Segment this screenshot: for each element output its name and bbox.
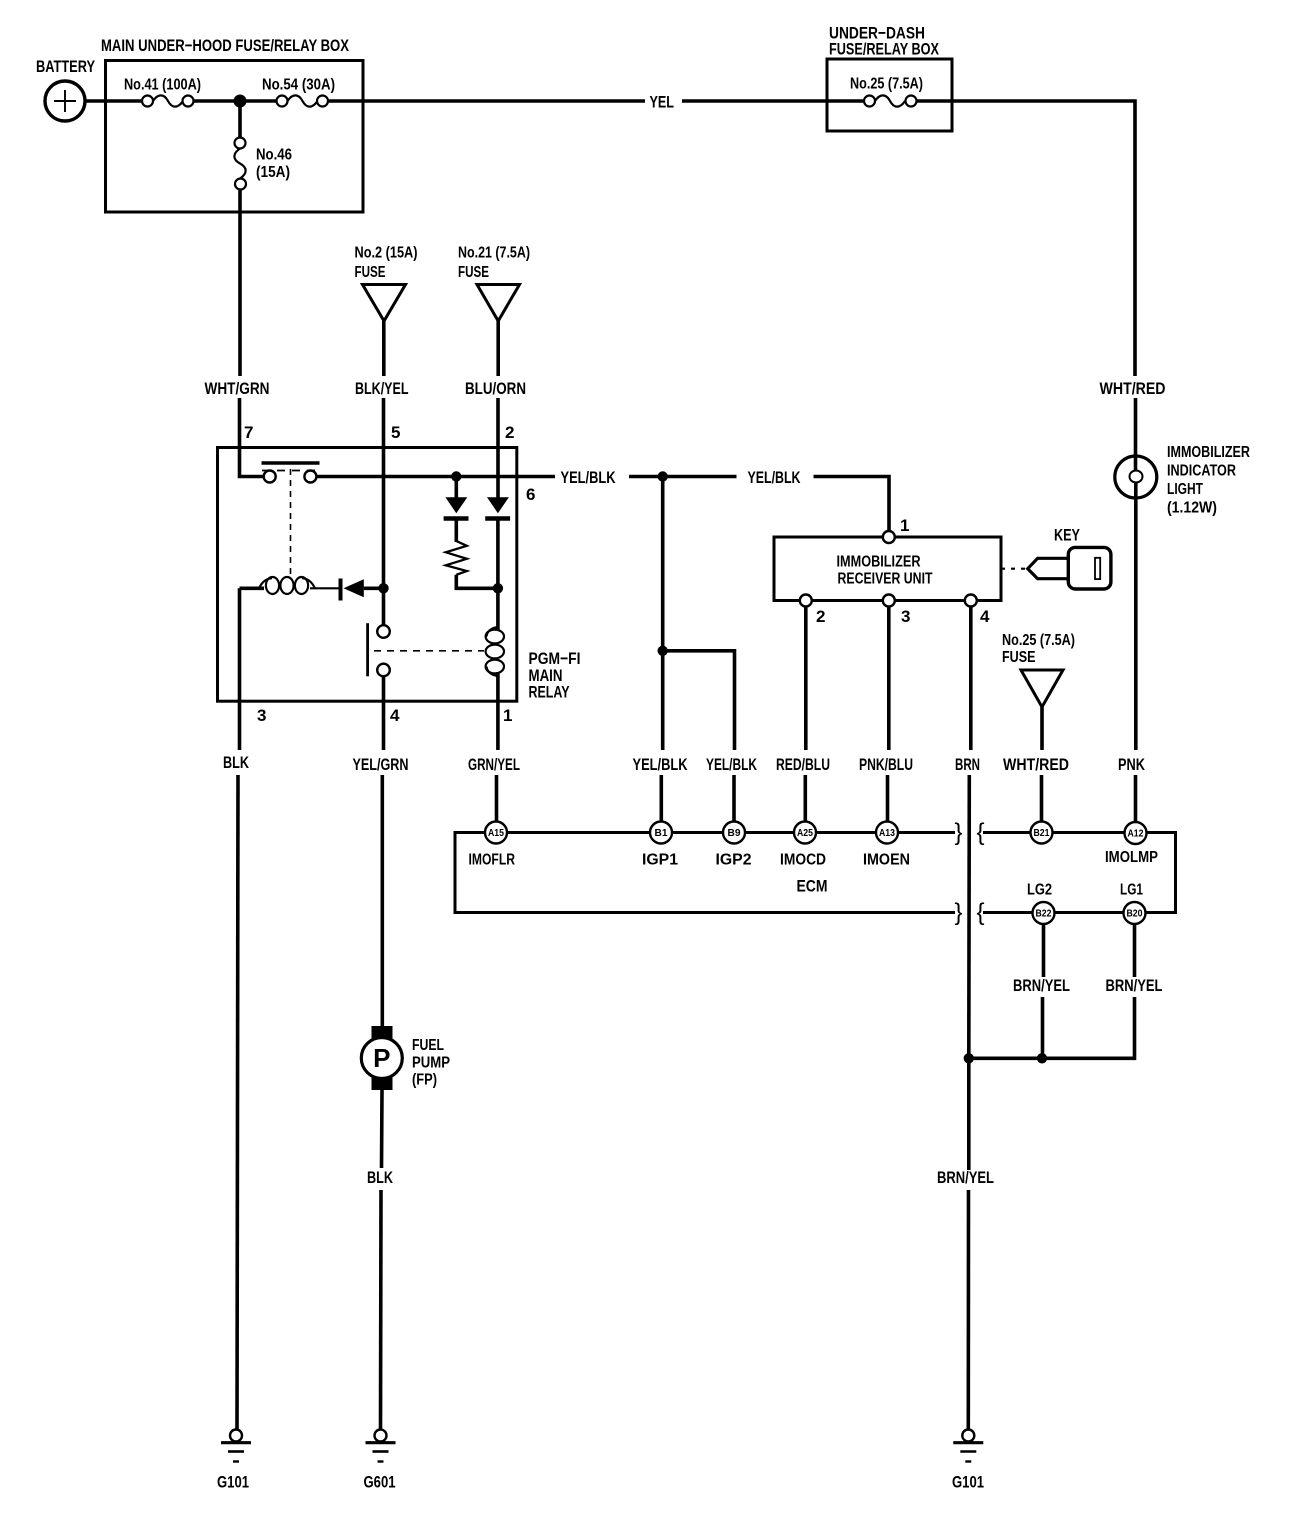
fuse No.25 (7.5A) under-dash [850,76,923,107]
svg-text:BLU/ORN: BLU/ORN [465,379,526,398]
svg-text:PNK/BLU: PNK/BLU [859,755,913,774]
svg-text:No.25 (7.5A): No.25 (7.5A) [1002,632,1075,649]
svg-text:4: 4 [390,706,400,725]
svg-text:{: { [976,819,984,846]
wire pin 4 YEL/GRN [382,676,386,750]
wire receiver pin 4 BRN [969,607,973,751]
svg-text:IMMOBILIZER: IMMOBILIZER [1167,444,1250,461]
svg-text:IGP1: IGP1 [642,852,678,869]
junction node [658,471,668,481]
wire to receiver pin 1 [814,477,890,532]
wire YEL/BLK inside relay [316,475,517,479]
svg-text:1: 1 [900,516,909,535]
svg-text:WHT/GRN: WHT/GRN [205,379,270,398]
wire PNK [1134,498,1138,750]
svg-text:RECEIVER UNIT: RECEIVER UNIT [838,571,933,588]
svg-text:G601: G601 [364,1473,396,1492]
wire receiver pin 3 PNK/BLU [887,607,891,751]
connector B21 [1031,822,1053,844]
svg-text:No.41 (100A): No.41 (100A) [124,77,201,94]
receiver pin 3 [883,595,895,607]
svg-text:LG2: LG2 [1027,882,1052,899]
svg-text:FUSE/RELAY BOX: FUSE/RELAY BOX [829,40,939,59]
immobilizer indicator light [1115,444,1251,517]
junction [964,1053,974,1063]
svg-text:B1: B1 [655,828,668,839]
ECM box right segment [983,833,1176,913]
ground G601 [364,1430,396,1492]
diode D2 [485,497,510,627]
wire down to indicator light [1134,398,1138,470]
wire B20 BRN/YEL [1133,924,1137,977]
svg-text:A13: A13 [879,828,895,839]
junction [451,471,461,481]
wire pin 3 BLK [238,588,242,750]
svg-text:No.21 (7.5A): No.21 (7.5A) [458,245,530,262]
svg-text:BLK: BLK [223,753,250,772]
svg-text:3: 3 [257,706,266,725]
svg-text:RELAY: RELAY [529,683,570,702]
BLU/ORN vertical pin 2 to diode [496,398,500,498]
ground G101 left [217,1430,251,1492]
fuse No.54 (30A) [262,77,335,107]
wire BLU/ORN [496,321,500,376]
svg-text:G101: G101 [217,1473,249,1492]
relay coil L1 [240,577,340,594]
svg-text:B22: B22 [1036,909,1052,920]
receiver pin 1 [883,531,895,543]
wire YEL/BLK out of relay pin 6 [517,475,555,479]
diode D1 [444,477,469,543]
wire B22 BRN/YEL [1042,924,1046,977]
junction [1037,1053,1047,1063]
PGM-FI main relay box [218,448,581,702]
svg-text:PNK: PNK [1118,755,1146,774]
junction [493,583,503,593]
svg-text:A25: A25 [797,828,813,839]
junction [234,95,247,108]
BLK/YEL vertical pin 5 down [382,398,386,626]
wire BLK/YEL [382,321,386,376]
svg-text:YEL/BLK: YEL/BLK [748,468,802,487]
fuse No.21 (7.5A) [458,245,530,322]
svg-text:B9: B9 [728,828,741,839]
svg-text:5: 5 [391,423,400,442]
svg-text:BRN/YEL: BRN/YEL [1106,976,1163,995]
svg-text:FUEL: FUEL [412,1037,444,1054]
junction [378,583,388,593]
svg-text:YEL/BLK: YEL/BLK [561,468,617,487]
connector B9 [723,822,745,844]
branch wire to B9 [663,651,735,750]
connector A13 [876,822,898,844]
svg-text:2: 2 [505,423,514,442]
svg-text:IMMOBILIZER: IMMOBILIZER [837,554,921,571]
svg-text:(FP): (FP) [412,1072,437,1089]
fuel pump FP [361,1026,450,1090]
wire receiver pin 2 RED/BLU [804,607,808,751]
wire resistor to coil node [456,575,498,589]
svg-text:FUSE: FUSE [458,264,489,281]
resistor [446,541,467,575]
svg-text:(1.12W): (1.12W) [1167,500,1217,517]
wire YEL to right corner [917,101,1136,376]
svg-text:2: 2 [816,607,825,626]
connector A12 [1125,822,1147,844]
vertical YEL/BLK to B1 [661,477,665,652]
fuse No.41 (100A) [124,77,201,107]
svg-text:A12: A12 [1128,829,1144,840]
ground G101 right [952,1430,984,1492]
key [1001,526,1111,590]
svg-text:A15: A15 [488,828,504,839]
svg-text:YEL/GRN: YEL/GRN [353,755,409,774]
svg-text:No.54 (30A): No.54 (30A) [262,77,335,94]
relay contact pins 7-6 [262,463,320,578]
svg-text:{: { [976,899,984,926]
connector A15 [485,822,507,844]
battery [36,57,95,121]
fuse No.25 (7.5A) [1002,632,1075,707]
connector B20 [1124,902,1146,924]
svg-text:IMOLMP: IMOLMP [1105,849,1158,866]
svg-text:FUSE: FUSE [1002,649,1036,666]
svg-text:YEL: YEL [650,93,675,112]
svg-text:WHT/RED: WHT/RED [1100,379,1166,398]
connector A25 [794,822,816,844]
fuse No.2 (15A) [355,245,418,322]
svg-text:FUSE: FUSE [355,264,386,281]
svg-text:BRN/YEL: BRN/YEL [937,1168,994,1187]
svg-text:P: P [373,1043,390,1073]
wire battery to fuse box [85,99,141,103]
svg-text:BRN: BRN [955,755,980,774]
wire WHT/GRN [238,190,242,377]
receiver pin 4 [965,595,977,607]
wire BLK below pump [380,1090,384,1168]
ECM box left segment [455,833,955,913]
svg-text:INDICATOR: INDICATOR [1167,463,1236,480]
svg-text:IMOEN: IMOEN [863,852,910,869]
svg-text:ECM: ECM [797,877,828,896]
wire WHT/RED [1040,707,1044,750]
svg-text:No.25 (7.5A): No.25 (7.5A) [850,76,923,93]
svg-text:1: 1 [503,706,512,725]
svg-text:RED/BLU: RED/BLU [776,755,830,774]
connector B1 [650,822,672,844]
svg-text:KEY: KEY [1054,526,1080,545]
fuse No.46 (15A) [234,101,292,190]
svg-text:IGP2: IGP2 [716,852,752,869]
svg-text:IMOFLR: IMOFLR [469,852,516,869]
svg-text:}: } [954,819,962,846]
svg-text:3: 3 [901,607,910,626]
svg-text:LIGHT: LIGHT [1167,481,1203,498]
svg-text:MAIN UNDER−HOOD FUSE/RELAY BOX: MAIN UNDER−HOOD FUSE/RELAY BOX [101,36,350,55]
svg-text:No.2 (15A): No.2 (15A) [355,245,418,262]
svg-text:LG1: LG1 [1120,882,1143,899]
svg-text:G101: G101 [952,1473,984,1492]
under-dash fuse/relay box [827,24,952,132]
svg-text:BRN/YEL: BRN/YEL [1013,976,1070,995]
svg-text:BATTERY: BATTERY [36,57,95,76]
diode D3 [341,579,384,601]
svg-text:No.46: No.46 [256,147,292,164]
svg-text:WHT/RED: WHT/RED [1003,755,1069,774]
immobilizer receiver unit [774,537,1001,601]
svg-text:B21: B21 [1034,828,1050,839]
svg-text:(15A): (15A) [256,164,290,181]
svg-text:B20: B20 [1127,909,1143,920]
svg-text:YEL/BLK: YEL/BLK [706,755,757,774]
wire BRN/YEL to ground [967,1058,971,1170]
relay coil L2 [486,627,504,750]
svg-text:6: 6 [526,485,535,504]
svg-text:IMOCD: IMOCD [780,852,826,869]
svg-text:}: } [954,899,962,926]
svg-text:GRN/YEL: GRN/YEL [468,755,520,774]
svg-text:7: 7 [244,423,253,442]
receiver pin 2 [800,595,812,607]
wire YEL [328,99,645,103]
svg-text:BLK: BLK [367,1168,394,1187]
main under-hood fuse/relay box [101,36,363,212]
junction [658,646,668,656]
svg-text:4: 4 [980,607,990,626]
connector B22 [1033,902,1055,924]
svg-text:BLK/YEL: BLK/YEL [355,379,409,398]
wire [194,99,277,103]
relay contact pins 5-4 [368,623,484,676]
svg-text:YEL/BLK: YEL/BLK [633,755,689,774]
svg-text:PUMP: PUMP [412,1055,450,1072]
